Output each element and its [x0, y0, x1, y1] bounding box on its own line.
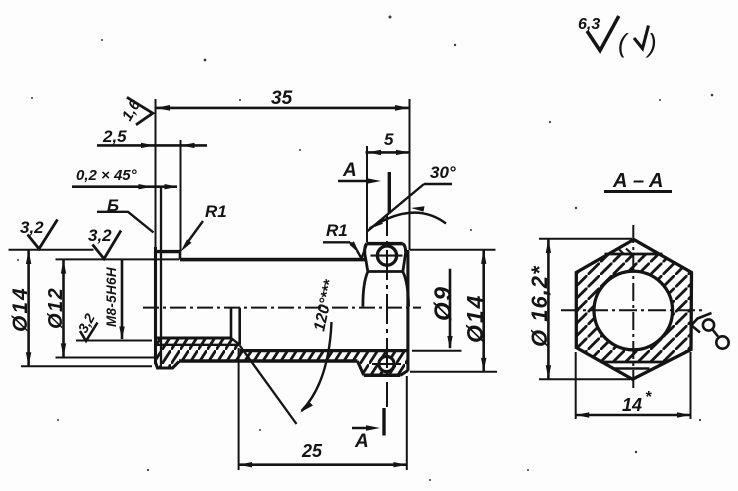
svg-text:A: A [354, 431, 369, 452]
hex head: waist line [368, 270, 403, 273]
svg-text:3,2: 3,2 [88, 226, 112, 245]
section A-A bore circle [594, 271, 673, 350]
part outline: left face [154, 247, 157, 364]
svg-text:R1: R1 [326, 221, 348, 240]
hex head: left corner arc [365, 244, 367, 253]
roughness 1,6 on left face [119, 97, 153, 125]
section line A: top thick dash [388, 172, 391, 214]
extension line diam14 left bottom [21, 365, 152, 367]
dimension 5 [366, 130, 410, 155]
roughness 3,2 on body surface [88, 226, 121, 259]
svg-text:Ø14: Ø14 [462, 294, 488, 343]
svg-text:*: * [645, 389, 652, 406]
part outline: flange bottom with chamfers [156, 362, 180, 369]
svg-text:2,5: 2,5 [102, 127, 127, 146]
dimension 35 [156, 88, 410, 111]
extension line 14 left [575, 352, 577, 419]
angle 30 deg annotation [367, 163, 456, 232]
hex head: bottom face [364, 374, 401, 378]
section A-A bottom chamfer chord [601, 361, 668, 364]
section A-A hatching [576, 254, 691, 362]
hex head: right end face [406, 250, 409, 371]
extension line diam16.2 top [539, 238, 632, 240]
hex head: right corner arc [403, 244, 406, 252]
extension line diam14 right bottom [410, 371, 497, 373]
extension line diam14 right top [410, 249, 496, 251]
extension line diam12 bottom [56, 357, 156, 359]
hex head: bottom right chamfer [400, 371, 408, 376]
part outline: body bottom [179, 359, 358, 363]
view arrow A top [338, 160, 381, 184]
dimension diam14 left [9, 250, 32, 366]
main axis center line [143, 307, 421, 309]
svg-text:Ø12: Ø12 [45, 287, 67, 329]
leader R1 left [181, 202, 227, 252]
part outline: flange top [154, 250, 180, 253]
svg-text:14: 14 [622, 395, 642, 415]
svg-text:Ø9: Ø9 [430, 285, 457, 321]
cross hole bottom: circle [379, 356, 394, 371]
part outline: thread major line [156, 344, 240, 346]
hex head: left upper edge [365, 253, 368, 271]
hex head: left lower hyperbola [363, 272, 368, 307]
svg-text:35: 35 [271, 88, 293, 109]
view arrow A bottom [352, 425, 380, 452]
roughness 3,2 on thread [75, 311, 98, 341]
cross hole top: circle [377, 246, 396, 265]
dimension diam12 [45, 259, 67, 357]
extension line right end up [409, 99, 411, 250]
svg-text:A: A [648, 170, 663, 192]
dimension 14 [576, 389, 691, 418]
part outline: thread end line 2 [238, 308, 241, 345]
section A-A hexagon outline [576, 240, 691, 380]
extension line diam14 left top [9, 249, 94, 251]
main view: section hatching lower half [154, 338, 408, 375]
dimension 25 [239, 348, 407, 470]
svg-text:M8-5H6H: M8-5H6H [104, 267, 119, 327]
leader R1 right [323, 221, 367, 259]
angle 120 deg annotation [300, 278, 339, 413]
svg-text:6,3: 6,3 [578, 16, 600, 33]
svg-text:–: – [633, 170, 644, 192]
svg-text:30°: 30° [430, 163, 456, 182]
hex head: top face [367, 242, 403, 246]
hex head: bottom step chamfer left [358, 361, 364, 375]
svg-text:A: A [342, 160, 357, 181]
roughness 3,2 on flange surface [20, 218, 58, 249]
hex head: right upper edge [403, 252, 406, 271]
svg-text:Ø 16,2*: Ø 16,2* [527, 265, 552, 347]
svg-text:A: A [612, 170, 627, 192]
part outline: thread end line 1 [230, 308, 233, 338]
extension line diam16.2 bottom [539, 378, 630, 380]
general roughness legend 6,3 [578, 16, 657, 58]
section A-A top chamfer mark [618, 249, 624, 255]
section cut line A-A vertical thin [386, 214, 388, 407]
extension line 14 right [690, 352, 692, 419]
main view: white hole punch in section [378, 356, 394, 372]
section A-A title [604, 170, 672, 192]
svg-text:25: 25 [301, 441, 323, 461]
section line A: bottom thick dash [382, 408, 385, 436]
part outline: thread runout diagonal [231, 338, 240, 345]
section A-A top chamfer chord [605, 253, 663, 256]
dimension 2,5 [97, 127, 207, 148]
svg-text:Ø14: Ø14 [9, 286, 32, 332]
svg-text:5: 5 [384, 130, 394, 149]
part outline: body top [180, 258, 366, 262]
dimension 0,2x45 [72, 167, 178, 189]
part outline: drill cone line extended [240, 346, 297, 425]
cross hole bottom: horizontal center line [372, 363, 401, 365]
hex head: right lower hyperbola [403, 272, 409, 307]
extension line diam12 top [56, 258, 180, 260]
dimension diam14 right [462, 250, 488, 372]
dimension diam9 [430, 269, 457, 350]
svg-text:R1: R1 [205, 202, 227, 221]
extension line M8 thread [76, 340, 152, 342]
part outline: chamfer line 0.2x45 [160, 188, 162, 364]
part outline: flange right edge [179, 252, 182, 260]
extension line flange right up [180, 140, 182, 252]
extension line left face up [155, 99, 157, 247]
dimension diam16.2 [527, 239, 552, 380]
part outline: thread minor line [156, 337, 231, 340]
section A-A horizontal center line [561, 309, 706, 311]
extension line hex left up [366, 146, 368, 243]
svg-text:3,2: 3,2 [20, 218, 44, 237]
dimension M8-5H6H [104, 260, 125, 340]
datum label B with leader [97, 196, 154, 233]
section A-A vertical center line [632, 225, 634, 390]
part outline: bore line [240, 349, 408, 352]
section A-A bottom chamfer chord 2 [613, 367, 650, 369]
cross hole top: horizontal center line [371, 255, 403, 257]
svg-text:0,2 × 45°: 0,2 × 45° [76, 167, 138, 184]
roughness symbol on hex flat [691, 313, 728, 349]
extension line diam9 [412, 350, 462, 352]
